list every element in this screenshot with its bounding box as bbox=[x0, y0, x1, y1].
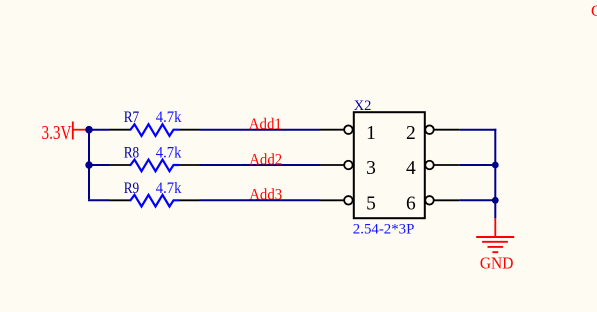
svg-text:3.3V: 3.3V bbox=[42, 123, 72, 144]
svg-text:R9: R9 bbox=[124, 180, 140, 197]
svg-text:GND: GND bbox=[480, 253, 514, 272]
wire vertical right rail bbox=[494, 129, 496, 219]
wire row2 left bbox=[89, 164, 109, 166]
svg-text:3: 3 bbox=[366, 158, 376, 179]
wire row1 left bbox=[89, 129, 109, 131]
wire row3 right bbox=[459, 199, 495, 201]
svg-text:R8: R8 bbox=[124, 145, 140, 162]
svg-text:6: 6 bbox=[406, 194, 416, 215]
svg-text:4.7k: 4.7k bbox=[156, 180, 182, 197]
svg-text:1: 1 bbox=[366, 123, 376, 144]
svg-text:Add3: Add3 bbox=[249, 187, 282, 204]
svg-text:5: 5 bbox=[366, 194, 376, 215]
wire row1 right bbox=[459, 129, 496, 131]
pin 5 bbox=[320, 194, 376, 215]
pin 3 bbox=[320, 158, 376, 179]
resistor R7 bbox=[109, 124, 200, 136]
resistor R8 bbox=[109, 160, 200, 172]
svg-text:2.54-2*3P: 2.54-2*3P bbox=[353, 222, 415, 238]
svg-text:C: C bbox=[591, 3, 597, 20]
wire row3 left bbox=[88, 199, 109, 201]
wire row1 net Add1 bbox=[200, 129, 321, 131]
pin 1 bbox=[320, 123, 376, 144]
wire row2 net Add2 bbox=[200, 164, 321, 166]
junction left rail row2 bbox=[85, 161, 92, 168]
svg-text:X2: X2 bbox=[354, 98, 372, 114]
connector X2 body bbox=[354, 112, 425, 218]
pin 6 bbox=[406, 194, 459, 215]
svg-text:4: 4 bbox=[406, 158, 416, 179]
svg-text:Add2: Add2 bbox=[249, 151, 282, 168]
pin 4 bbox=[406, 158, 459, 179]
wire vertical left rail bbox=[88, 130, 90, 200]
svg-text:2: 2 bbox=[406, 123, 416, 144]
wire row2 right bbox=[459, 164, 495, 166]
resistor R9 bbox=[109, 195, 200, 207]
junction right rail row3 bbox=[492, 197, 499, 204]
svg-text:4.7k: 4.7k bbox=[156, 145, 182, 162]
svg-text:4.7k: 4.7k bbox=[156, 109, 182, 126]
junction right rail row2 bbox=[492, 162, 499, 169]
junction at 3.3V row1 bbox=[85, 126, 93, 134]
svg-text:Add1: Add1 bbox=[249, 116, 282, 133]
svg-text:R7: R7 bbox=[124, 109, 140, 126]
ground GND bbox=[476, 218, 514, 252]
wire row3 net Add3 bbox=[200, 199, 321, 201]
power port 3.3V bbox=[42, 122, 89, 145]
pin 2 bbox=[406, 123, 459, 144]
